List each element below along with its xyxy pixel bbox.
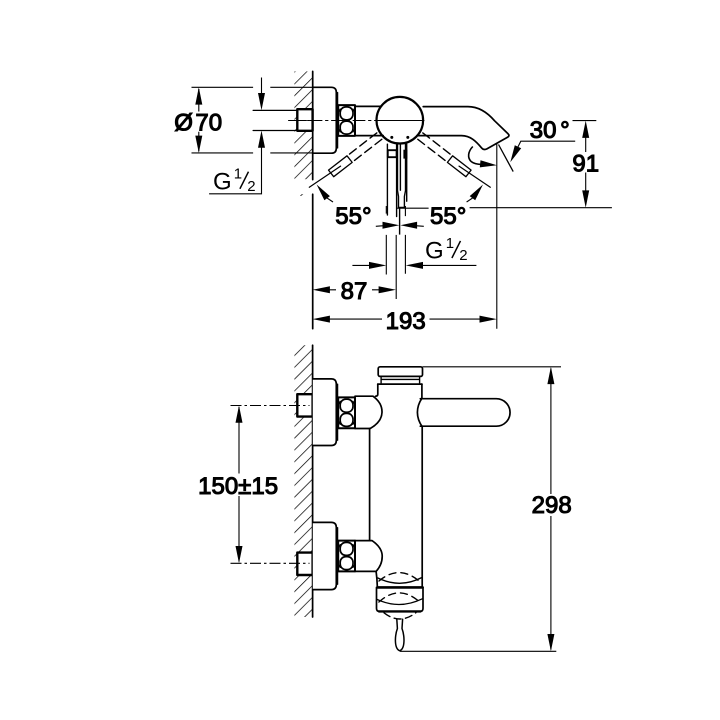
supply elbow box (top view)	[297, 109, 312, 131]
dim 298 line	[550, 369, 552, 650]
centerline lower supply	[231, 562, 310, 564]
dim 91 top ext	[573, 120, 597, 122]
hidden outlet dashed arc above cup	[379, 573, 419, 581]
left swing ray (dashed lever at 55deg)	[309, 133, 382, 187]
handle hub arc	[417, 398, 422, 426]
dim 193 line	[329, 318, 481, 320]
svg-text:298: 298	[532, 492, 572, 519]
water drop	[395, 619, 399, 651]
dim G1/2 (lower) line	[352, 264, 476, 266]
svg-text:55°: 55°	[430, 203, 466, 230]
svg-text:2: 2	[459, 247, 467, 264]
centerline upper supply	[231, 405, 310, 407]
ext lines below handle	[385, 206, 387, 275]
dim Ø70 line	[198, 89, 200, 151]
dim 55 right: arc + arrows	[415, 225, 423, 228]
svg-text:55°: 55°	[335, 203, 371, 230]
dim 55 left: arc + arrows	[376, 225, 384, 228]
svg-text:193: 193	[386, 308, 426, 335]
dim Ø70 extension lines	[192, 87, 313, 153]
dim 91 line	[585, 136, 587, 193]
indicator dot right	[406, 136, 409, 139]
inlet bell lower	[355, 541, 382, 572]
union nut lower (side view)	[338, 541, 355, 572]
spout swivel arc arrow	[469, 147, 481, 165]
wall line (side view)	[312, 345, 314, 617]
escutcheon (top view)	[313, 87, 337, 153]
wall line (top view)	[312, 71, 314, 328]
hidden dashed arc inside cup	[379, 593, 420, 602]
escutcheon upper (side view)	[313, 379, 337, 446]
ext line from spout outlet (x=496.8)	[496, 143, 498, 329]
dim 87 line	[329, 289, 380, 291]
svg-text:G: G	[425, 238, 444, 265]
label G1/2 (upper)	[213, 166, 256, 196]
centerline inside elbow box	[299, 120, 312, 122]
svg-text:87: 87	[341, 278, 368, 305]
svg-text:G: G	[213, 168, 232, 195]
ball knob (top view)	[377, 97, 424, 144]
centerline faucet axis	[289, 120, 425, 122]
inlet bell upper	[355, 396, 382, 428]
svg-text:91: 91	[572, 151, 599, 178]
svg-text:30°: 30°	[530, 117, 570, 144]
svg-text:Ø70: Ø70	[174, 109, 222, 136]
supply elbow box upper	[297, 394, 312, 416]
right swing ray (dashed lever at 55deg)	[418, 133, 491, 187]
escutcheon step line	[337, 93, 339, 149]
outlet cup top thick line	[377, 586, 422, 589]
body tube between nut and ball	[355, 106, 383, 135]
spout (top view)	[417, 107, 509, 150]
label G1/2 (lower)	[425, 235, 468, 265]
union nut upper (side view)	[338, 397, 355, 428]
body outline	[376, 384, 378, 396]
wall hatch (top view)	[294, 71, 312, 179]
body shoulder	[378, 383, 422, 385]
handle bar (side view)	[420, 399, 510, 427]
indicator dot left	[390, 136, 393, 139]
svg-text:1: 1	[446, 235, 454, 252]
union nut (top view)	[338, 105, 355, 136]
30deg reference diagonal	[499, 145, 514, 172]
solid arc inside cup bottom	[377, 599, 422, 605]
dim 298 bottom ext	[400, 650, 556, 652]
body bottom saucer	[378, 578, 422, 584]
svg-text:1: 1	[234, 166, 242, 183]
dim 298 top ext	[423, 366, 562, 368]
dim 150+-15 line	[238, 407, 240, 562]
leader G1/2 (upper) arrows	[209, 78, 261, 194]
hidden dashed arc below cup	[384, 613, 416, 619]
svg-text:150±15: 150±15	[198, 473, 278, 500]
outlet cup bottom thick line	[379, 610, 421, 612]
escutcheon lower (side view)	[313, 522, 337, 589]
supply pipe behind wall	[253, 110, 297, 130]
handle lever hanging down (rest position)	[387, 144, 407, 217]
ext line y=207.7 (91 bottom)	[396, 207, 612, 210]
outlet cup	[377, 587, 424, 611]
dim 30: leader and arrow	[517, 141, 575, 148]
svg-text:2: 2	[247, 178, 255, 195]
top cap	[378, 367, 422, 377]
wall hatch (side view)	[294, 345, 312, 617]
neck rings	[381, 376, 420, 383]
supply elbow box lower	[297, 553, 312, 575]
